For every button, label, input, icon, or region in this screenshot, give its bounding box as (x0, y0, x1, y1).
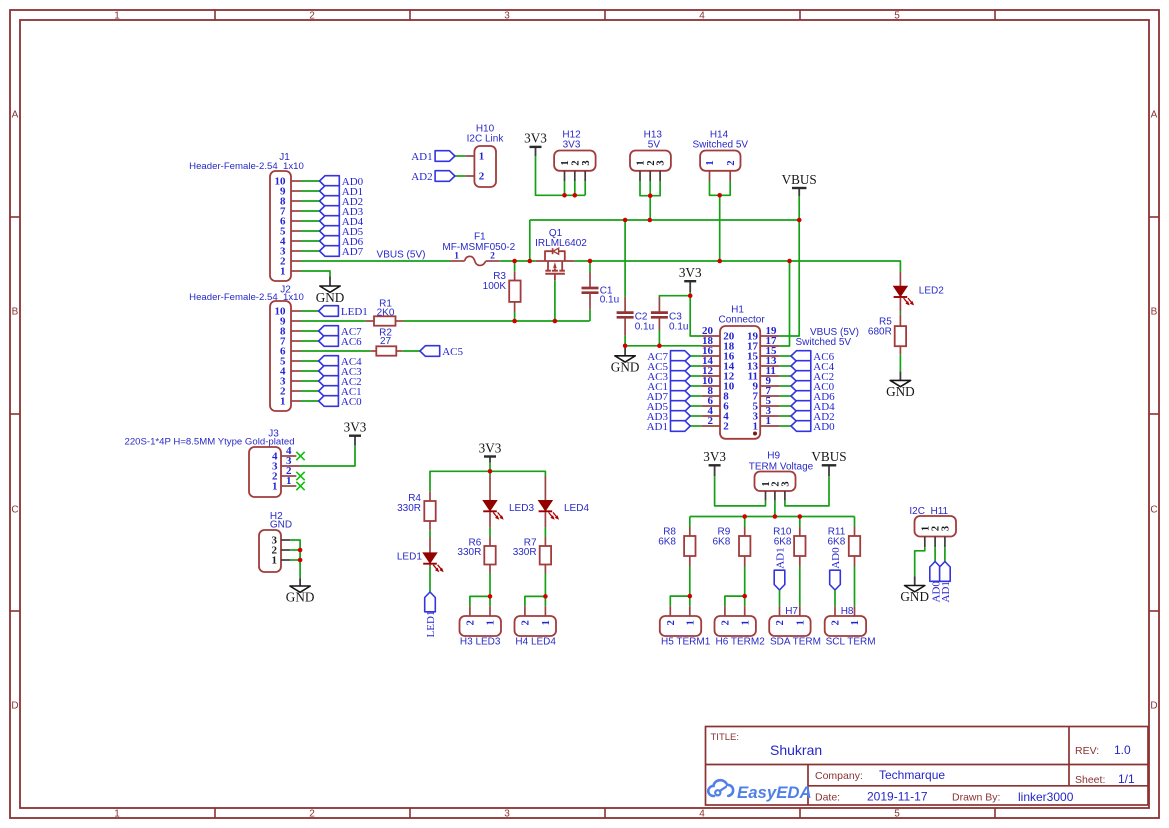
svg-text:1: 1 (740, 620, 751, 625)
resistor R3 (509, 281, 520, 302)
wire R8 to H5 (689, 567, 691, 607)
H2 pin numbers (272, 535, 278, 567)
F1 pin 1 lead (450, 260, 465, 262)
J2 pin stubs (291, 311, 301, 401)
net flag AC2 (319, 376, 362, 388)
svg-text:6K8: 6K8 (713, 537, 731, 548)
net flag LED1 vertical (425, 592, 438, 638)
net flag AD4 (320, 216, 364, 228)
wire H9 pin2 to term rail (774, 501, 776, 517)
net flag AD4 (791, 401, 835, 413)
H12 pin 2 stub (574, 171, 576, 181)
svg-text:GND: GND (611, 359, 640, 374)
wire LED2 to R5 (899, 312, 901, 315)
R5 bottom lead (899, 346, 901, 354)
svg-text:GND: GND (900, 589, 929, 604)
svg-text:Shukran: Shukran (770, 742, 822, 758)
H7 pin 1 stub (799, 606, 801, 616)
net flag LED1 (319, 306, 368, 318)
wire H3 pin2 branch (470, 596, 490, 606)
wire VBUS to H9 pin3 (785, 476, 829, 506)
C3 bottom lead (658, 318, 660, 330)
wire H14 pins tie (710, 181, 731, 195)
junction H12 pin2 (573, 193, 578, 198)
svg-text:2: 2 (708, 415, 714, 427)
header H2 (259, 530, 281, 572)
net flag AD7 (647, 391, 691, 403)
svg-text:GND: GND (286, 590, 315, 605)
svg-text:AD0: AD0 (830, 547, 842, 569)
svg-text:1: 1 (114, 11, 120, 22)
junction H6 pins (742, 594, 747, 599)
power VBUS TERM (811, 449, 846, 476)
LED LED2 (894, 286, 915, 305)
wire H1 to AD4 (780, 405, 791, 407)
header H4 (515, 616, 557, 636)
svg-text:C: C (1150, 505, 1157, 516)
H9 pin 3 stub (784, 491, 786, 501)
resistor R11 (849, 536, 860, 556)
header H9 (755, 472, 796, 492)
svg-text:VBUS: VBUS (811, 449, 846, 464)
net flag AC3 (319, 366, 363, 378)
svg-text:Company:: Company: (815, 770, 863, 782)
net flag AC5 (420, 346, 464, 358)
EasyEDA logo (708, 780, 811, 802)
wire H2 pin3 tie (290, 540, 300, 560)
LED LED4 (539, 501, 560, 520)
net flag AC5 (647, 361, 690, 373)
junction H13 to VBUS rail (648, 218, 653, 223)
capacitor C2 (617, 313, 634, 318)
header H5 (660, 616, 701, 636)
svg-text:LED4: LED4 (564, 503, 589, 514)
wire AD2 to H10 pin 2 (455, 175, 465, 177)
wire F1 to Q1 source (500, 260, 536, 262)
H1 polarity dot (753, 432, 757, 436)
C2 bottom lead (624, 318, 626, 336)
svg-text:B: B (12, 307, 19, 318)
wire H12 pin3 down (584, 181, 586, 195)
H1 right external pin numbers (766, 325, 778, 427)
svg-text:680R: 680R (868, 326, 892, 337)
wire H5 pin2 branch (670, 596, 690, 606)
no-connect J3 pin 2 (296, 472, 304, 480)
wire H1 to AD2 (780, 415, 791, 417)
wire switched 5V line (575, 261, 901, 272)
H1 internal right pin numbers (747, 331, 759, 433)
svg-text:AD2: AD2 (411, 171, 432, 183)
no-connect J3 pin 4 (296, 452, 304, 460)
svg-text:0.1u: 0.1u (669, 322, 688, 333)
R1 left lead (366, 320, 374, 322)
R4 top lead (429, 492, 431, 501)
svg-text:AC5: AC5 (442, 346, 463, 358)
wire VBUS rail (530, 219, 799, 221)
wire R5 to ground (899, 354, 901, 371)
svg-text:AD1: AD1 (411, 151, 432, 163)
svg-text:2019-11-17: 2019-11-17 (867, 790, 928, 804)
svg-text:AD1: AD1 (940, 581, 952, 602)
svg-text:H7: H7 (785, 606, 798, 617)
capacitor C3 (651, 313, 668, 318)
junction R3 bottom (512, 319, 517, 324)
wire H2 pin1 tie (290, 559, 300, 561)
wire LED3 to R6 (489, 528, 491, 537)
junction R3 top (512, 259, 517, 264)
power 3V3 near H1 (679, 265, 702, 292)
wire Q1 gate down (554, 280, 556, 321)
wire 3V3 to H12 pins (536, 156, 586, 195)
net flag AC3 (647, 371, 690, 383)
svg-text:B: B (1151, 307, 1158, 318)
wire R9 to H6 (744, 567, 746, 607)
wire R10 to H7 pin1 (799, 567, 801, 607)
wire J3 pin 3 to 3V3 (300, 445, 355, 466)
H12 pin 3 stub (584, 171, 586, 181)
H14 pin 1 stub (709, 171, 711, 181)
svg-text:2: 2 (726, 160, 737, 165)
wire rail to R11 (854, 517, 856, 528)
svg-text:2: 2 (521, 620, 532, 625)
ground H2 (286, 578, 315, 604)
junction Q1 gate (553, 319, 558, 324)
svg-text:REV:: REV: (1075, 745, 1099, 757)
svg-text:D: D (11, 701, 18, 712)
power VBUS top (782, 172, 817, 196)
frame row ticks right (1149, 217, 1159, 611)
svg-text:3: 3 (941, 526, 952, 531)
wire AD0 flag to H8 pin2 (834, 590, 836, 606)
net flag AD0 at H11 (930, 562, 943, 603)
junction H3 pins (488, 594, 493, 599)
junction gnd line at C2 (623, 344, 628, 349)
wire C3 bottom (658, 330, 660, 346)
wire VBUS rail left leg (529, 220, 531, 261)
svg-text:AD1: AD1 (647, 421, 668, 433)
junction 3V3 C3 (688, 293, 693, 298)
R2 right lead (396, 350, 402, 352)
svg-text:VBUS: VBUS (782, 172, 817, 187)
net flag AC7 (647, 351, 690, 363)
junction H2 pin1 (298, 558, 303, 563)
svg-text:3V3: 3V3 (563, 140, 581, 151)
svg-text:GND: GND (886, 384, 915, 399)
junction H5 pins (688, 594, 693, 599)
wire H1 to AC2 (780, 375, 791, 377)
R8 top lead (689, 527, 691, 536)
H11 pin 2 stub (934, 537, 936, 548)
H1 left pin stubs (702, 336, 720, 426)
net flag AC6 (791, 351, 835, 363)
R8 bottom lead (689, 556, 691, 567)
H10 pin 2 stub (465, 175, 474, 177)
H14 pin 2 stub (729, 171, 731, 181)
wire AD1 flag to H7 pin2 (779, 590, 781, 606)
wire R3 top (514, 261, 516, 272)
wire AC3 to H1 (690, 375, 701, 377)
wire H6 pin2 branch (725, 596, 745, 606)
net flag AC4 (791, 361, 835, 373)
R7 bottom lead (544, 565, 546, 574)
wire J1 pin 9 to AD1 (301, 190, 320, 192)
H6 pin 2 stub (724, 606, 726, 616)
svg-text:A: A (12, 110, 19, 121)
svg-text:LED1: LED1 (425, 611, 437, 638)
ground R5 (886, 371, 915, 399)
wire C1 bottom (589, 310, 591, 321)
resistor R8 (684, 536, 695, 556)
svg-text:3V3: 3V3 (703, 449, 726, 464)
svg-text:2: 2 (723, 421, 729, 433)
C2 top lead (624, 297, 626, 312)
svg-text:Sheet:: Sheet: (1075, 774, 1105, 786)
junction H13 tie (648, 193, 653, 198)
no-connect J3 pin 1 (296, 482, 304, 490)
svg-text:5: 5 (894, 809, 900, 820)
net flag AC7 (319, 326, 363, 338)
J2 pin numbers (275, 306, 287, 408)
svg-text:330R: 330R (513, 547, 537, 558)
wire H1 to AD0 (780, 425, 791, 427)
wire J2 to AC3 (301, 370, 319, 372)
wire J2 to AC2 (301, 380, 319, 382)
wire VBUS down to H1 pin19 (780, 196, 800, 336)
svg-text:EasyEDA: EasyEDA (737, 783, 812, 802)
svg-text:LED2: LED2 (919, 286, 944, 297)
svg-text:Switched 5V: Switched 5V (796, 337, 852, 348)
svg-text:330R: 330R (457, 547, 481, 558)
J3 pin numbers (272, 451, 278, 493)
svg-text:100K: 100K (483, 281, 507, 292)
svg-text:27: 27 (380, 336, 392, 347)
svg-text:AC0: AC0 (341, 396, 362, 408)
H8 pin 1 stub (854, 606, 856, 616)
power 3V3 at J3 (344, 420, 367, 446)
C3 top lead (658, 297, 660, 312)
wire C3 top to 3V3 (659, 296, 690, 297)
svg-text:1: 1 (766, 415, 772, 427)
net flag AD5 (320, 226, 364, 238)
capacitor C1 (582, 288, 599, 293)
H6 pin 1 stub (744, 606, 746, 616)
junction gnd line at C3 (657, 344, 662, 349)
header H14 (700, 151, 740, 171)
svg-text:D: D (1150, 701, 1157, 712)
wire rail to R9 (744, 517, 746, 528)
net flag AD1 at H7 (774, 547, 787, 590)
wire LED1 to flag (429, 567, 431, 592)
svg-text:2: 2 (309, 809, 315, 820)
header H1 (720, 326, 760, 439)
svg-text:1/1: 1/1 (1118, 772, 1135, 786)
LED LED1 (423, 553, 444, 572)
R9 bottom lead (744, 556, 746, 567)
svg-text:4: 4 (699, 11, 705, 22)
resistor R4 (424, 501, 435, 521)
wire H1 pin 17 switched 5V (780, 261, 790, 346)
svg-text:3V3: 3V3 (524, 131, 547, 146)
wire rail to R10 (799, 517, 801, 528)
H1 left external pin numbers (702, 325, 714, 427)
R2 left lead (370, 350, 376, 352)
svg-text:AD0: AD0 (813, 421, 835, 433)
power 3V3 near H12 (524, 131, 547, 156)
frame column ticks top (215, 10, 995, 20)
svg-text:AD1: AD1 (775, 547, 787, 568)
LED3 anode lead (489, 476, 491, 501)
junction LED rail (488, 469, 493, 474)
net flag AC6 (319, 336, 363, 348)
svg-text:3V3: 3V3 (479, 440, 502, 455)
svg-text:3V3: 3V3 (344, 420, 367, 435)
svg-text:2: 2 (721, 620, 732, 625)
junction C2 at rail (623, 218, 628, 223)
wire term rail (690, 516, 855, 518)
ground C2 line (611, 346, 640, 375)
wire H12 pin1 down (564, 181, 566, 195)
wire H1 to AC4 (780, 365, 791, 367)
wire gnd line to H1 pin 18 (625, 345, 702, 347)
wire C2 bottom to gnd line (624, 336, 626, 346)
svg-text:Connector: Connector (719, 315, 766, 326)
svg-text:LED3: LED3 (509, 503, 534, 514)
wire R11 to H8 pin1 (854, 567, 856, 607)
H11 pin 3 stub (944, 537, 946, 548)
wire AD1 to H10 pin 1 (455, 155, 465, 157)
J3 pin stubs (281, 456, 300, 486)
wire AD1 to H1 (690, 425, 701, 427)
resistor R5 (895, 326, 906, 346)
C1 top lead (589, 273, 591, 288)
H4 pin 2 stub (524, 606, 526, 616)
wire H4 pin2 branch (525, 596, 546, 606)
wire J2 pin 6 to R2 (301, 350, 370, 352)
H2 pin 1 stub (281, 559, 290, 561)
wire AD7 to H1 (690, 395, 701, 397)
net flag AC4 (319, 356, 363, 368)
svg-text:2: 2 (479, 171, 485, 183)
wire rail to C2 (624, 220, 626, 297)
wire J1 pin 3 to AD7 (301, 250, 320, 252)
svg-text:1: 1 (753, 421, 759, 433)
H3 pin 2 stub (469, 606, 471, 616)
svg-text:2: 2 (775, 620, 786, 625)
svg-text:I2C Link: I2C Link (467, 134, 505, 145)
R4 bottom lead (429, 521, 431, 530)
svg-text:H6 TERM2: H6 TERM2 (716, 637, 766, 648)
net flag AD7 (320, 246, 364, 258)
svg-text:1: 1 (486, 620, 497, 625)
net flag AD2 (320, 196, 364, 208)
svg-text:3V3: 3V3 (679, 265, 702, 280)
svg-text:3: 3 (504, 809, 510, 820)
LED4 cathode lead (544, 512, 546, 528)
svg-text:LED1: LED1 (341, 306, 368, 318)
svg-text:1.0: 1.0 (1114, 743, 1131, 757)
wire J2 to AC0 (301, 400, 319, 402)
title block border (706, 727, 1149, 806)
svg-text:AD7: AD7 (342, 246, 364, 258)
svg-text:3: 3 (656, 160, 667, 165)
header H3 (460, 616, 502, 636)
R3 bottom lead (514, 302, 516, 312)
svg-text:4: 4 (699, 809, 705, 820)
LED4 anode lead (544, 476, 546, 501)
ground J1 pin1 (316, 277, 345, 306)
fuse F1 (465, 256, 486, 265)
svg-text:1: 1 (479, 151, 485, 163)
resistor R10 (794, 536, 805, 556)
frame row ticks left (10, 217, 20, 611)
wire R7 to H4 (544, 573, 546, 606)
wire H11 pin2 to AD0 (934, 547, 936, 561)
net flag AD0 at H8 (830, 547, 843, 590)
wire 3V3 to H9 pin1 (715, 476, 766, 506)
wire J2 pin 9 to R1 (301, 320, 366, 322)
wire J2 to AC4 (301, 360, 319, 362)
net flag AD5 (647, 401, 691, 413)
header H6 (715, 616, 756, 636)
wire R2 to AC5 (402, 350, 420, 352)
wire H1 to AC0 (780, 385, 791, 387)
svg-text:0.1u: 0.1u (600, 295, 619, 306)
junction H9 rail (773, 514, 778, 519)
wire J2 pin 10 to LED1 (301, 310, 319, 312)
svg-text:H3 LED3: H3 LED3 (460, 637, 501, 648)
net flag AD6 (320, 236, 364, 248)
svg-text:220S-1*4P H=8.5MM Ytype Gold-p: 220S-1*4P H=8.5MM Ytype Gold-plated (125, 437, 295, 448)
svg-text:1: 1 (272, 555, 278, 567)
resistor R1 (374, 316, 396, 325)
svg-text:LED1: LED1 (397, 552, 422, 563)
LED LED3 (483, 501, 504, 520)
svg-text:VBUS (5V): VBUS (5V) (377, 250, 426, 261)
wire J2 to AC7 (301, 330, 319, 332)
net flag AD1 at H11 (940, 562, 953, 603)
junction H12 pin1 (562, 193, 567, 198)
header H12 (554, 151, 596, 171)
svg-text:Switched 5V: Switched 5V (693, 140, 749, 151)
H9 pin 2 stub (774, 491, 776, 501)
svg-text:Drawn By:: Drawn By: (952, 792, 1000, 804)
net flag AD2 (411, 171, 455, 183)
power 3V3 TERM (703, 449, 726, 476)
svg-text:C: C (11, 505, 18, 516)
junction H14 tie (717, 193, 722, 198)
H5 pin 1 stub (689, 606, 691, 616)
header J2 (270, 301, 291, 411)
wire J1 pin 10 to AD0 (301, 180, 320, 182)
ground H11 (900, 577, 929, 605)
F1 pin 2 lead (486, 260, 500, 262)
resistor R7 (540, 546, 551, 565)
junction H14 at switched line (717, 259, 722, 264)
wire R1 to gate net (404, 320, 590, 322)
H7 pin 2 stub (779, 606, 781, 616)
wire AD3 to H1 (690, 415, 701, 417)
power 3V3 LED rail (479, 440, 502, 462)
svg-text:1: 1 (850, 620, 861, 625)
svg-text:1: 1 (685, 620, 696, 625)
svg-text:Date:: Date: (815, 792, 840, 804)
junction VBUS at rail (797, 218, 802, 223)
R6 top lead (489, 537, 491, 546)
LED3 cathode lead (489, 512, 491, 528)
svg-text:H5 TERM1: H5 TERM1 (661, 637, 711, 648)
wire 3V3 LED rail (430, 471, 545, 492)
wire H1 to AD6 (780, 395, 791, 397)
